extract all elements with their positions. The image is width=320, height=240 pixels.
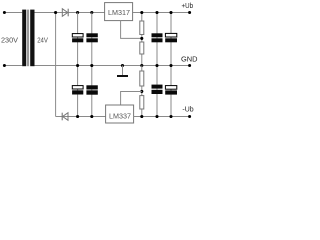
junction C1 mid: [76, 64, 79, 67]
svg-text:-Ub: -Ub: [182, 105, 193, 114]
wire U2 adj: [121, 92, 142, 106]
junction adj1: [140, 37, 143, 40]
voltage regulator U2 LM337: [106, 105, 134, 123]
capacitor C2: [86, 33, 97, 42]
junction C3 top: [155, 11, 158, 14]
junction ground: [121, 64, 124, 67]
capacitor C1 (electrolytic, + up): [72, 34, 83, 43]
wire C1 column: [77, 13, 79, 117]
wire raw negative drop: [55, 13, 57, 117]
junction C2 mid: [90, 64, 93, 67]
transformer T1 core: [27, 10, 29, 67]
resistor R3: [140, 71, 144, 86]
wire U1 adj: [121, 21, 142, 39]
svg-text:GND: GND: [181, 54, 198, 63]
junction secondary top: [54, 11, 57, 14]
terminal mains N: [3, 64, 6, 67]
transformer T1 primary winding: [22, 10, 26, 67]
junction C5 bottom: [76, 115, 79, 118]
junction C7 bottom: [155, 115, 158, 118]
junction C8 bottom: [169, 115, 172, 118]
junction C1 top: [76, 11, 79, 14]
diode D2: [62, 113, 68, 121]
wire U1 output rail: [133, 12, 190, 14]
svg-text:+Ub: +Ub: [182, 1, 194, 10]
wire primary top: [4, 12, 22, 14]
junction R4 bottom: [140, 115, 143, 118]
capacitor C6: [86, 85, 97, 94]
capacitor C4 (electrolytic, + up): [165, 33, 177, 42]
capacitor C5 (electrolytic, + up): [72, 86, 83, 95]
svg-text:24V: 24V: [37, 37, 48, 44]
wire primary bottom: [4, 65, 22, 67]
capacitor C7: [152, 85, 163, 94]
capacitor C8 (electrolytic, + up): [165, 86, 177, 95]
wire raw negative rail: [56, 116, 106, 118]
wire GND rail: [35, 65, 190, 67]
svg-text:LM337: LM337: [109, 112, 131, 121]
diode D1: [62, 9, 68, 17]
voltage regulator U1 LM317: [105, 3, 133, 21]
junction C4 top: [169, 11, 172, 14]
wire secondary top to regulator input: [35, 12, 105, 14]
junction C3 mid: [155, 64, 158, 67]
junction divider mid: [140, 64, 143, 67]
junction C4 mid: [169, 64, 172, 67]
junction C2 top: [90, 11, 93, 14]
resistor R1: [140, 21, 144, 35]
terminal GND: [188, 64, 191, 67]
wire C4 column: [170, 13, 172, 117]
resistor R2: [140, 42, 144, 54]
svg-text:LM317: LM317: [108, 8, 130, 17]
svg-text:230V: 230V: [1, 37, 18, 44]
junction adj2: [140, 90, 143, 93]
terminal +Ub: [188, 11, 191, 14]
wire divider column bottom: [141, 66, 143, 117]
junction C6 bottom: [90, 115, 93, 118]
junction R1 top: [140, 11, 143, 14]
transformer T1 secondary winding: [30, 10, 34, 67]
terminal mains L: [3, 11, 6, 14]
capacitor C3: [152, 33, 163, 42]
wire U2 output rail: [134, 116, 190, 118]
wire divider column top: [141, 13, 143, 66]
ground: [117, 66, 128, 77]
wire C3 column: [156, 13, 158, 117]
resistor R4: [140, 96, 144, 109]
terminal -Ub: [188, 115, 191, 118]
wire C2 column: [91, 13, 93, 117]
